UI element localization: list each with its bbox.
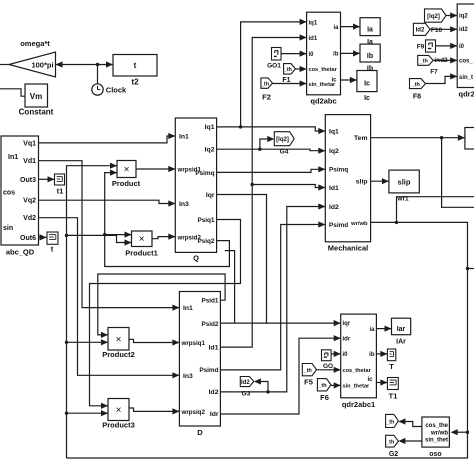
- svg-text:_th: _th: [303, 368, 313, 374]
- wire qd2abc ia to scope Ia: [341, 26, 361, 28]
- from tag F2: [261, 78, 273, 88]
- svg-text:wr/wb: wr/wb: [350, 221, 368, 227]
- svg-text:Id2: Id2: [209, 389, 219, 396]
- svg-text:Q: Q: [193, 254, 199, 263]
- wire branch into oso input: [455, 431, 468, 433]
- svg-text:Vd1: Vd1: [23, 158, 36, 165]
- wire stub to right edge: [468, 268, 474, 270]
- svg-text:ib: ib: [369, 352, 375, 358]
- svg-text:F8: F8: [413, 94, 421, 101]
- svg-text:ic: ic: [367, 377, 373, 383]
- svg-text:Mechanical: Mechanical: [328, 243, 368, 252]
- wire D Psid1 to Product2 input 1: [98, 274, 225, 335]
- svg-text:Psimd: Psimd: [199, 367, 218, 374]
- block Mechanical: [325, 115, 370, 242]
- svg-text:wrpsiq2: wrpsiq2: [181, 409, 206, 416]
- svg-text:omega*t: omega*t: [20, 39, 50, 48]
- svg-text:id2: id2: [459, 27, 468, 33]
- wire Psid2 riser vertical: [225, 251, 235, 324]
- block qdr2abc1: [341, 314, 377, 398]
- svg-text:t1: t1: [57, 187, 64, 196]
- wire qd2abc ic to scope Ic: [341, 79, 357, 81]
- wire Id2 branch to goto Id2 G3: [258, 382, 268, 392]
- wire Vq2 to Q In3: [39, 200, 176, 203]
- svg-text:Psimq: Psimq: [329, 167, 348, 174]
- svg-text:abc_QD: abc_QD: [6, 248, 35, 257]
- node oso branch: [466, 431, 469, 434]
- svg-text:qdr2abc1: qdr2abc1: [342, 400, 375, 409]
- block t1: [55, 174, 65, 185]
- from tag F1: [284, 64, 296, 75]
- wire Iq2 branch to goto Iq2: [260, 139, 271, 149]
- wire wr bus to Product3 input 2: [67, 412, 109, 414]
- svg-text:i0: i0: [459, 44, 465, 50]
- wire oso sin out to tag G2b: [402, 440, 422, 442]
- svg-text:[Iq2]: [Iq2]: [276, 137, 289, 143]
- svg-text:Vm: Vm: [30, 92, 42, 101]
- svg-text:×: ×: [116, 405, 122, 416]
- block Product2: [108, 328, 129, 351]
- from tag Id2 top right: [413, 23, 430, 35]
- node Iq1 branch: [239, 125, 242, 128]
- svg-text:iqr: iqr: [343, 321, 351, 327]
- wire Q Psimq to Mechanical Psimq: [217, 169, 326, 172]
- goto tag Id2 G3: [240, 377, 254, 387]
- svg-text:×: ×: [124, 165, 130, 176]
- wire gain output to left edge: [0, 64, 9, 66]
- wire qdr ic to T1: [376, 382, 387, 384]
- from tag F8: [410, 79, 426, 89]
- block slip display: [389, 170, 419, 193]
- svg-text:_th: _th: [419, 59, 429, 65]
- svg-text:Iq1: Iq1: [329, 128, 339, 135]
- node Tem branch: [440, 136, 443, 139]
- svg-text:×: ×: [139, 234, 145, 245]
- svg-text:Iqr: Iqr: [206, 192, 215, 199]
- wire F5 to cos_thetar: [317, 369, 341, 371]
- svg-text:Iq1: Iq1: [205, 124, 215, 131]
- wire qdr ia to Iar: [376, 328, 391, 330]
- svg-text:Psimd: Psimd: [329, 222, 348, 229]
- block Tem scope at right edge: [465, 128, 474, 150]
- wire Iq2 tag to iq2: [446, 15, 457, 17]
- svg-text:Vd2: Vd2: [23, 215, 36, 222]
- from tag G2b: [386, 435, 399, 447]
- svg-text:F6: F6: [320, 393, 329, 402]
- svg-text:ib: ib: [333, 52, 339, 58]
- block Vm constant: [25, 84, 48, 107]
- svg-text:Out6: Out6: [20, 235, 36, 242]
- node junction above clock: [96, 63, 99, 66]
- svg-text:_th: _th: [385, 419, 395, 425]
- svg-text:Ic: Ic: [364, 81, 370, 88]
- wire Product to Q wrpsid1: [136, 168, 175, 170]
- block t: [47, 232, 58, 244]
- wire F1 to cos_thetar: [296, 68, 307, 70]
- svg-text:F2: F2: [262, 92, 271, 101]
- svg-text:In1: In1: [179, 133, 189, 140]
- wire junction down to clock: [97, 65, 99, 84]
- block Q subsystem: [175, 118, 216, 252]
- svg-text:sin_t: sin_t: [459, 75, 473, 81]
- wire oso cos out to tag G2a: [402, 422, 422, 427]
- block t2: [113, 55, 157, 77]
- scope Ia: [360, 18, 380, 36]
- svg-text:Vq1: Vq1: [23, 140, 36, 147]
- from tag F6: [317, 379, 331, 391]
- wire D Idr to qdr2abc1 idr: [220, 338, 340, 414]
- svg-text:_th: _th: [283, 67, 293, 73]
- block qd2abc: [307, 12, 341, 95]
- svg-text:100*pi: 100*pi: [31, 60, 53, 69]
- node wr bus junction 1: [65, 234, 68, 237]
- node wr1 branch: [395, 221, 398, 224]
- svg-text:GO: GO: [323, 363, 333, 370]
- scope Ic: [357, 71, 377, 92]
- svg-text:i0: i0: [309, 52, 315, 58]
- goto icon F9: [426, 40, 436, 52]
- wire D Psid2 riser: [220, 322, 266, 324]
- svg-text:t2: t2: [131, 78, 139, 87]
- svg-text:cos_: cos_: [459, 59, 473, 65]
- scope Ib: [360, 44, 380, 62]
- block T: [387, 349, 395, 361]
- wire GO1 to qd2abc i0: [281, 53, 307, 55]
- svg-text:Id2: Id2: [329, 204, 339, 211]
- node Id1 branch: [251, 183, 254, 186]
- wire D Psimd to Mechanical Psimd: [220, 225, 325, 370]
- wire wr bus to Product1 input 2: [67, 235, 132, 242]
- svg-text:wrpsiq1: wrpsiq1: [181, 340, 206, 347]
- wire Q Iq1 to Mechanical Iq1: [217, 127, 326, 131]
- wire Q Psiq1 to Product3 input 1: [90, 220, 241, 406]
- svg-text:Iq2: Iq2: [329, 148, 339, 155]
- svg-text:In1: In1: [183, 305, 193, 312]
- svg-text:T1: T1: [389, 392, 398, 401]
- svg-text:G3: G3: [242, 391, 251, 398]
- svg-text:Ib: Ib: [367, 53, 373, 60]
- wire D Id2 to Mechanical Id2: [220, 207, 325, 392]
- svg-text:ic: ic: [331, 78, 337, 84]
- wire D Id1 to Mechanical Id1 and qd2abc id1: [220, 38, 306, 348]
- wire Psiq2 branch to Product1 input 1: [105, 234, 132, 236]
- svg-text:Psiq1: Psiq1: [197, 217, 214, 224]
- wire Q Iqr to qdr2abc1 iqr: [217, 195, 341, 324]
- wire Out3 to t1: [39, 178, 55, 180]
- wire clock tee to gain input and t2 input: [56, 64, 114, 66]
- wire slip to display: [371, 180, 389, 182]
- wire GO to qdr i0: [331, 353, 341, 355]
- svg-text:slip: slip: [398, 178, 411, 187]
- goto icon GO1: [272, 48, 282, 61]
- svg-text:i0: i0: [343, 352, 349, 358]
- svg-text:×: ×: [116, 335, 122, 346]
- svg-text:Idr: Idr: [210, 411, 219, 418]
- svg-text:F9: F9: [417, 44, 425, 51]
- wire Product1 to Q wrpsid2: [152, 237, 175, 239]
- svg-text:_th: _th: [385, 440, 395, 446]
- svg-text:Product3: Product3: [102, 421, 135, 430]
- svg-text:Id1: Id1: [209, 344, 219, 351]
- wire F7 to cos: [433, 59, 457, 61]
- wire F6 to sin_thetar: [331, 384, 341, 386]
- svg-text:In3: In3: [183, 373, 193, 380]
- svg-text:Product: Product: [112, 179, 141, 188]
- svg-text:Product1: Product1: [125, 248, 158, 257]
- svg-text:Psimq: Psimq: [195, 170, 214, 177]
- svg-text:GO1: GO1: [267, 62, 281, 69]
- wire Tem branch down and right: [442, 138, 474, 208]
- svg-text:_th: _th: [260, 81, 270, 87]
- wire wr bus to Product2 input 2: [67, 341, 109, 343]
- svg-text:iq2: iq2: [459, 14, 468, 20]
- svg-text:_th: _th: [411, 82, 421, 88]
- svg-text:cos_the: cos_the: [425, 423, 448, 429]
- wire qdr ib to T: [376, 353, 387, 355]
- svg-text:t: t: [134, 61, 137, 70]
- svg-text:idr: idr: [343, 337, 351, 343]
- svg-text:ind2: ind2: [434, 57, 448, 64]
- from tag F7: [418, 55, 434, 65]
- wire Vq1 to Q In1: [39, 136, 176, 143]
- svg-text:cos_thetar: cos_thetar: [309, 67, 338, 73]
- node Iq2 branch: [258, 148, 261, 151]
- node right bus stub junction: [466, 267, 469, 270]
- wire qd2abc ib to scope Ib: [341, 52, 361, 54]
- block Product1: [132, 231, 153, 247]
- wire Id2 tag to id2: [430, 28, 457, 30]
- wire wr/wb output bus: [67, 222, 468, 458]
- svg-text:qdr2ab: qdr2ab: [459, 89, 474, 98]
- svg-text:T: T: [389, 362, 394, 371]
- block D subsystem: [179, 292, 220, 427]
- wire Iq1 branch up to qd2abc iq1: [241, 22, 307, 127]
- node Psiq2 branch: [103, 233, 106, 236]
- svg-text:_th: _th: [317, 383, 327, 389]
- wire wr1 branch to right edge: [397, 197, 474, 223]
- goto icon GO: [322, 350, 332, 361]
- wire F9 to i0: [436, 45, 458, 47]
- block qdr2abc top right (clipped): [457, 4, 474, 88]
- wire wr/wb bus up left side to Product input 1: [67, 166, 118, 458]
- svg-text:oso: oso: [429, 451, 441, 458]
- svg-text:Iar: Iar: [397, 326, 406, 333]
- svg-text:Id2: Id2: [416, 28, 425, 34]
- svg-text:G2: G2: [389, 451, 398, 458]
- wire Vd1 to D In1: [39, 161, 180, 308]
- from tag F5: [302, 364, 316, 376]
- wire Product3 to D wrpsiq2: [129, 408, 179, 411]
- goto tag Iq2 G4: [274, 132, 294, 146]
- wire Tem to scope: [371, 137, 465, 139]
- svg-text:IAr: IAr: [396, 339, 406, 346]
- block Product3: [108, 399, 129, 421]
- svg-text:ia: ia: [369, 327, 375, 333]
- svg-text:Ia: Ia: [367, 27, 373, 34]
- scope Iar: [392, 318, 411, 335]
- svg-text:Product2: Product2: [102, 350, 135, 359]
- svg-text:sin_thetar: sin_thetar: [343, 384, 371, 390]
- wire F2 to sin_thetar: [273, 83, 307, 85]
- svg-text:sin: sin: [3, 225, 13, 232]
- svg-text:Id1: Id1: [329, 185, 339, 192]
- from tag Iq2 top right: [425, 9, 447, 22]
- svg-text:Tem: Tem: [354, 135, 367, 142]
- wire Vm to left edge: [0, 89, 25, 96]
- wire Q Iq2 to Mechanical Iq2: [217, 149, 326, 151]
- svg-text:cos: cos: [3, 189, 15, 196]
- svg-text:wr1: wr1: [396, 195, 409, 202]
- block abc_QD: [1, 136, 39, 245]
- svg-text:Ic: Ic: [364, 95, 370, 102]
- wire F8 to sin: [426, 76, 458, 83]
- gain block 100*pi (flipped): [9, 52, 56, 77]
- svg-text:Psid1: Psid1: [201, 298, 218, 305]
- block Product: [117, 161, 136, 178]
- svg-text:sin_thet: sin_thet: [425, 438, 448, 444]
- svg-text:Constant: Constant: [19, 108, 54, 117]
- svg-text:F5: F5: [304, 377, 313, 386]
- svg-text:ia: ia: [333, 25, 339, 31]
- svg-text:Vq2: Vq2: [23, 198, 36, 205]
- wire Q Psiq2 to Product input 2 and Product1 input 1: [105, 173, 230, 267]
- svg-text:Psiq2: Psiq2: [197, 238, 214, 245]
- svg-text:D: D: [197, 428, 203, 437]
- svg-text:[Iq2]: [Iq2]: [427, 14, 440, 20]
- from tag G2a: [386, 414, 399, 427]
- svg-text:cos_thetar: cos_thetar: [343, 368, 372, 374]
- svg-text:Out3: Out3: [20, 177, 36, 184]
- svg-text:G4: G4: [280, 149, 289, 156]
- wire Out6 to t: [39, 236, 47, 238]
- wire Id1 branch to Mechanical Id1: [252, 185, 325, 188]
- svg-text:In3: In3: [179, 201, 189, 208]
- svg-text:In1: In1: [8, 154, 18, 161]
- block T1: [387, 378, 398, 390]
- svg-text:wr/wb: wr/wb: [430, 430, 448, 436]
- wire Product2 to D wrpsiq1: [129, 339, 179, 342]
- svg-text:id1: id1: [309, 36, 318, 42]
- svg-text:F10: F10: [431, 27, 443, 34]
- node Id2 branch: [266, 390, 269, 393]
- svg-text:Iq2: Iq2: [205, 147, 215, 154]
- wire Vd2 to D In3: [39, 218, 180, 376]
- node wr bus junction 3: [65, 412, 68, 415]
- svg-text:qd2abc: qd2abc: [310, 97, 336, 106]
- clock block: [92, 84, 103, 95]
- svg-text:Clock: Clock: [106, 86, 127, 95]
- svg-text:iq1: iq1: [309, 20, 318, 26]
- node wr bus junction 2: [65, 341, 68, 344]
- svg-text:F7: F7: [430, 68, 438, 75]
- svg-text:slip: slip: [356, 179, 368, 186]
- block oso: [422, 417, 450, 447]
- svg-text:Id2: Id2: [241, 380, 250, 386]
- svg-text:Psid2: Psid2: [201, 321, 218, 328]
